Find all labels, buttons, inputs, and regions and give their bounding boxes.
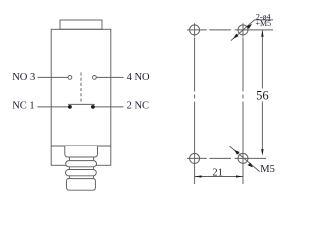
mounting hole top-right xyxy=(238,25,248,35)
wire NO right lead xyxy=(96,76,123,78)
plunger dashed centerline xyxy=(80,73,82,104)
leader M5 diagonal xyxy=(230,146,260,172)
leader 2-o4 underline xyxy=(255,19,274,21)
svg-text:56: 56 xyxy=(256,89,269,103)
svg-text:21: 21 xyxy=(212,168,223,179)
arrowhead 21 right xyxy=(236,175,243,177)
boot neck 1 xyxy=(68,157,70,161)
arrowhead 56 top xyxy=(261,30,263,37)
svg-text:2 NC: 2 NC xyxy=(127,101,149,112)
NC bridge bar xyxy=(68,103,95,105)
mounting hole bottom-left xyxy=(190,153,200,163)
boot ring 2 xyxy=(66,170,97,176)
wire NC left lead xyxy=(38,106,70,108)
contact NO left (open) xyxy=(68,76,72,80)
boot neck 3 xyxy=(68,176,70,179)
crosshair bottom-right horizontal + extension line xyxy=(235,157,266,159)
mounting hole bottom-right xyxy=(238,153,248,163)
contact NC left (closed dot) xyxy=(68,105,72,109)
boot neck 2 xyxy=(68,167,70,170)
wire NO left lead xyxy=(38,76,69,78)
contact NO right (open) xyxy=(93,76,97,80)
dashed connector top holes xyxy=(209,29,231,31)
crosshair bottom-left vertical + extension to 21 dim xyxy=(194,152,196,185)
leader 2-o4 diagonal xyxy=(231,20,255,41)
arrowhead leader M5 upper xyxy=(234,150,239,155)
dashed connector bottom holes xyxy=(209,157,231,159)
crosshair top-right vertical xyxy=(242,23,244,37)
crosshair top-left horizontal xyxy=(187,29,207,31)
arrowhead 56 bottom xyxy=(261,149,263,156)
arrowhead 21 left xyxy=(195,175,202,177)
crosshair bottom-left horizontal xyxy=(187,157,207,159)
dimension 21 line xyxy=(195,176,243,178)
dimension 56 line lower segment xyxy=(261,102,263,150)
centerline left vertical dashed xyxy=(194,38,196,152)
boot end cap xyxy=(67,179,96,191)
svg-text:M5: M5 xyxy=(260,164,275,175)
arrowhead leader M5 lower xyxy=(248,163,253,168)
svg-text:NC 1: NC 1 xyxy=(12,101,34,112)
arrowhead leader 2-o4 lower xyxy=(233,34,238,39)
svg-text:4 NO: 4 NO xyxy=(127,72,150,83)
contact NC right (closed dot) xyxy=(91,105,95,109)
crosshair bottom-right vertical + extension to 21 dim xyxy=(242,152,244,185)
body seam line xyxy=(51,145,111,147)
svg-text:+M5: +M5 xyxy=(256,19,272,28)
plunger cap top xyxy=(60,20,102,29)
arrowhead leader 2-o4 upper xyxy=(247,24,252,29)
mounting hole top-left xyxy=(190,25,200,35)
crosshair top-left vertical xyxy=(194,23,196,37)
boot cup xyxy=(65,146,98,157)
dimension 56 line upper segment xyxy=(261,30,263,88)
boot ring 1 xyxy=(66,161,97,167)
wire NC right lead xyxy=(93,106,124,108)
crosshair top-right horizontal + extension line xyxy=(235,29,273,31)
centerline right vertical dashed xyxy=(242,38,244,152)
switch body xyxy=(51,29,111,165)
svg-text:NO 3: NO 3 xyxy=(12,72,35,83)
